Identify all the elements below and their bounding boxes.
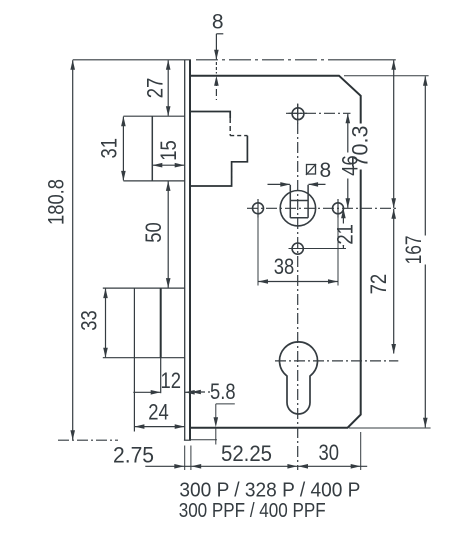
dimension 50 [167, 181, 169, 287]
dimension 167 [424, 76, 426, 427]
bottom fixing hole [292, 243, 303, 254]
dimension 15 [153, 164, 185, 166]
svg-text:15: 15 [156, 140, 181, 161]
lock case outline [190, 76, 361, 428]
dimension 27 [167, 60, 169, 115]
top hole centerline [286, 112, 351, 114]
bottom dimension chain 2.75 / 52.25 / 30 [145, 465, 367, 467]
spindle follower circle [280, 191, 315, 226]
svg-text:27: 27 [142, 78, 167, 99]
svg-text:5.8: 5.8 [210, 379, 236, 404]
svg-text:31: 31 [96, 138, 121, 159]
main vertical centerline [297, 104, 299, 470]
dimension 72 [393, 209, 395, 354]
square dim 8 arrows [268, 183, 290, 185]
dimension 33 [105, 289, 107, 358]
top fixing hole [292, 108, 304, 120]
case bottom extension [349, 427, 431, 429]
label 5.8 [191, 390, 201, 395]
svg-text:2.75: 2.75 [113, 442, 154, 467]
svg-text:180.8: 180.8 [43, 179, 68, 225]
dimension 70.3 [393, 60, 395, 208]
svg-text:46: 46 [338, 155, 363, 176]
dimension 180.8 [72, 60, 74, 440]
svg-text:12: 12 [161, 368, 182, 393]
svg-text:52.25: 52.25 [221, 441, 272, 466]
cylinder centerline [275, 360, 398, 362]
faceplate back edge / case front [189, 60, 191, 440]
svg-text:8: 8 [212, 10, 224, 33]
svg-text:24: 24 [148, 399, 169, 424]
dimension 21 [342, 209, 344, 249]
svg-text:21: 21 [332, 224, 357, 245]
svg-text:300 PPF / 400 PPF: 300 PPF / 400 PPF [179, 500, 326, 522]
label square-8 [307, 165, 316, 175]
case top extension [344, 75, 429, 77]
faceplate bottom extension [191, 439, 217, 441]
right fixing hole [333, 203, 344, 214]
euro cylinder hole [280, 342, 318, 414]
svg-text:167: 167 [401, 235, 426, 264]
latch bolt [191, 112, 230, 119]
spindle square hole [289, 185, 291, 218]
dimension 31 [122, 117, 124, 181]
left fixing hole [253, 203, 264, 214]
deadbolt extension lines [133, 358, 135, 432]
svg-text:38: 38 [274, 254, 295, 279]
svg-text:8: 8 [319, 159, 331, 182]
bottom extension lines [184, 446, 186, 471]
svg-text:50: 50 [141, 222, 166, 243]
faceplate front edge [184, 60, 186, 440]
svg-text:72: 72 [366, 274, 391, 295]
dimension 46 [347, 114, 349, 208]
top extension line [73, 59, 191, 61]
bottom extension dash-dot [58, 439, 118, 441]
svg-text:300 P / 328 P / 400 P: 300 P / 328 P / 400 P [179, 479, 360, 501]
svg-text:30: 30 [318, 440, 339, 465]
latch follower box [151, 116, 153, 181]
deadbolt box [133, 288, 135, 358]
svg-text:33: 33 [76, 310, 101, 331]
faceplate bottom end [184, 439, 191, 441]
spindle horizontal centerline [247, 207, 398, 209]
dimension 38 [257, 215, 259, 286]
